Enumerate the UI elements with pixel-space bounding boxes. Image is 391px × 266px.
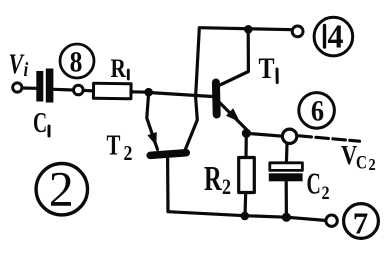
- svg-text:R: R: [204, 159, 223, 198]
- svg-text:i: i: [24, 59, 29, 82]
- junction C2 rail: [282, 213, 291, 222]
- svg-text:C: C: [33, 108, 47, 139]
- node 8: [60, 44, 94, 79]
- wire input to C1: [22, 86, 36, 90]
- transistor T2: [147, 94, 198, 212]
- svg-text:7: 7: [353, 206, 369, 241]
- wire terminal to R1: [83, 89, 94, 93]
- label C1 subscript 1: [48, 126, 51, 136]
- node 14: [314, 17, 353, 56]
- transistor T1: [216, 31, 249, 134]
- terminal node 6: [282, 129, 296, 143]
- svg-text:8: 8: [70, 46, 83, 79]
- junction emitter node: [242, 129, 251, 138]
- wire T1 emitter to node 6 terminal: [246, 133, 282, 136]
- node 7: [344, 204, 379, 241]
- label T2: [107, 129, 133, 165]
- capacitor C1: [36, 69, 53, 103]
- junction base node: [144, 88, 153, 97]
- label R2: [204, 159, 231, 200]
- label VC2: [341, 141, 376, 174]
- svg-text:2: 2: [49, 161, 74, 217]
- label T1 subscript 1: [276, 69, 279, 83]
- wire C1 to terminal: [54, 88, 73, 92]
- wire base node to T1 base: [149, 93, 213, 97]
- label C1: [33, 108, 47, 139]
- svg-text:V: V: [9, 50, 26, 80]
- svg-text:2: 2: [369, 156, 376, 174]
- label Vi: [9, 50, 29, 81]
- junction R2 rail: [241, 212, 250, 221]
- svg-text:C: C: [307, 166, 321, 201]
- terminal 14: [292, 26, 303, 37]
- svg-text:R: R: [111, 55, 127, 83]
- wire bottom rail: [168, 212, 326, 221]
- svg-text:2: 2: [322, 182, 330, 204]
- svg-text:2: 2: [124, 143, 133, 166]
- svg-text:6: 6: [311, 95, 324, 128]
- svg-text:C: C: [356, 152, 367, 173]
- dashed line to VC2: [299, 136, 360, 141]
- wire C2 to rail: [285, 182, 288, 218]
- resistor R1: [93, 83, 131, 99]
- svg-text:T: T: [107, 129, 121, 161]
- resistor R2: [239, 158, 255, 193]
- svg-text:T: T: [259, 51, 275, 84]
- svg-text:2: 2: [222, 175, 231, 199]
- svg-text:V: V: [341, 141, 357, 170]
- svg-text:4: 4: [328, 19, 344, 56]
- wire T2 collector to top rail: [196, 28, 200, 97]
- label R1 subscript 1: [127, 70, 130, 79]
- terminal input: [13, 83, 22, 92]
- wire top rail: [199, 28, 292, 30]
- node 2: [36, 161, 87, 217]
- wire R2 to rail: [243, 193, 247, 216]
- label R1: [111, 55, 127, 83]
- wire emitter node to R2: [244, 134, 248, 159]
- capacitor C2: [269, 163, 303, 182]
- label C2: [307, 166, 330, 203]
- wire node 6 terminal to C2: [285, 144, 289, 164]
- wire R1 to base node: [131, 90, 149, 94]
- terminal 7: [326, 215, 337, 226]
- terminal node 8: [74, 85, 84, 95]
- junction top rail: [244, 25, 253, 34]
- node 6: [299, 93, 335, 129]
- label T1: [259, 51, 275, 84]
